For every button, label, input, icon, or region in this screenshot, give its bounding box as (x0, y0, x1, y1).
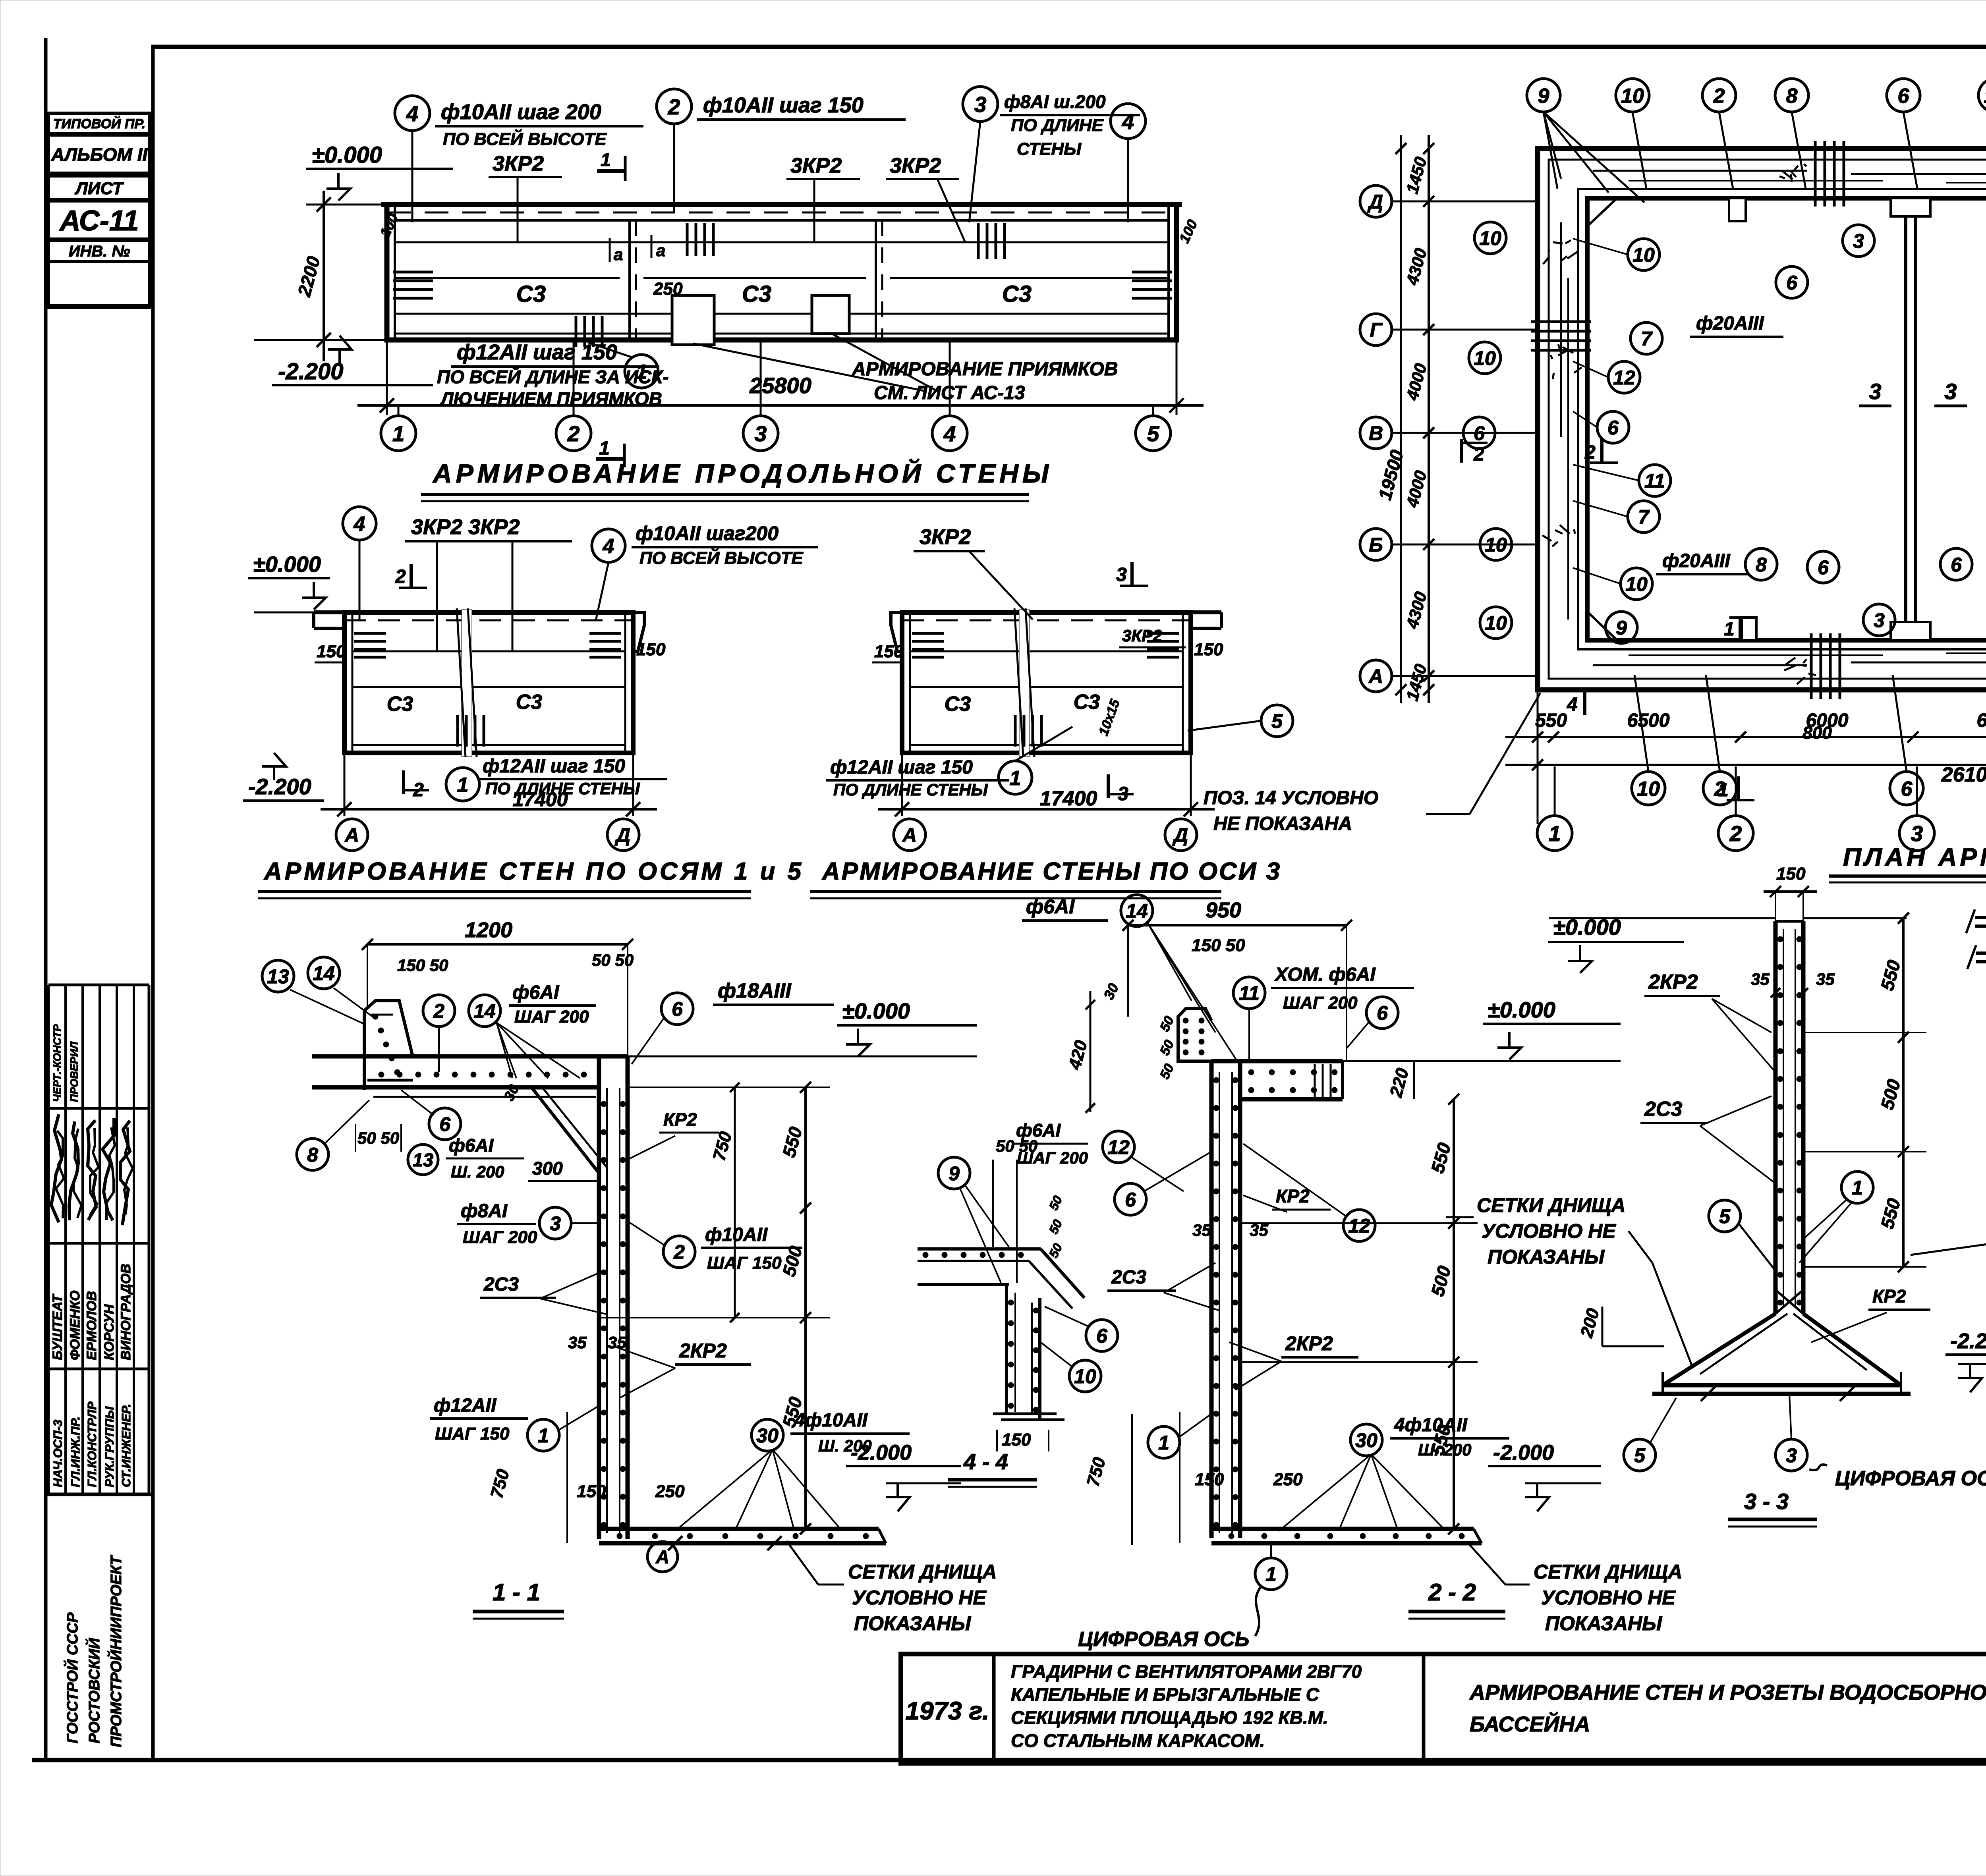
svg-text:2С3: 2С3 (1644, 1098, 1682, 1121)
svg-text:14: 14 (313, 962, 335, 984)
svg-text:РУК.ГРУППЫ: РУК.ГРУППЫ (102, 1406, 116, 1487)
svg-text:ПОЗ. 14 УСЛОВНО: ПОЗ. 14 УСЛОВНО (1204, 787, 1378, 809)
svg-text:АРМИРОВАНИЕ СТЕН И РОЗЕТЫ ВОД: АРМИРОВАНИЕ СТЕН И РОЗЕТЫ ВОДОСБОРНОГО (1469, 1681, 1986, 1704)
svg-text:13: 13 (413, 1149, 433, 1170)
svg-text:3: 3 (550, 1212, 561, 1235)
svg-text:50 50: 50 50 (357, 1129, 399, 1147)
svg-text:5: 5 (1271, 710, 1283, 732)
svg-text:1: 1 (538, 1424, 549, 1447)
svg-text:РОСТОВСКИЙ: РОСТОВСКИЙ (85, 1638, 103, 1743)
svg-text:АЛЬБОМ II: АЛЬБОМ II (51, 144, 148, 165)
svg-text:СМ. ЛИСТ АС-13: СМ. ЛИСТ АС-13 (874, 382, 1025, 403)
svg-text:ПРОМСТРОЙНИИПРОЕКТ: ПРОМСТРОЙНИИПРОЕКТ (107, 1555, 125, 1747)
svg-text:ПО ВСЕЙ ДЛИНЕ ЗА ИСК-: ПО ВСЕЙ ДЛИНЕ ЗА ИСК- (437, 367, 669, 387)
svg-text:3: 3 (974, 92, 987, 117)
svg-text:4: 4 (406, 101, 419, 126)
svg-text:14: 14 (473, 1000, 496, 1022)
svg-text:35: 35 (1192, 1221, 1211, 1239)
svg-text:9: 9 (1538, 85, 1549, 108)
svg-text:3: 3 (1786, 1444, 1797, 1467)
svg-text:1: 1 (1724, 619, 1735, 640)
svg-text:ф12АII шаг 150: ф12АII шаг 150 (483, 756, 625, 777)
svg-text:6500: 6500 (1627, 710, 1670, 731)
svg-text:5: 5 (1634, 1444, 1646, 1467)
svg-text:10: 10 (1474, 347, 1496, 369)
svg-text:150: 150 (1194, 640, 1223, 659)
svg-text:7: 7 (1641, 328, 1653, 350)
svg-text:800: 800 (1802, 723, 1832, 743)
svg-text:АРМИРОВАНИЕ ПРИЯМКОВ: АРМИРОВАНИЕ ПРИЯМКОВ (852, 359, 1118, 380)
svg-text:3КР2: 3КР2 (493, 152, 544, 176)
svg-text:-2.000: -2.000 (851, 1441, 912, 1465)
svg-text:2КР2: 2КР2 (1285, 1332, 1333, 1355)
svg-text:а: а (614, 245, 623, 264)
svg-text:±0.000: ±0.000 (1488, 997, 1555, 1022)
svg-text:4: 4 (1567, 694, 1578, 715)
svg-text:12: 12 (1613, 367, 1635, 389)
svg-text:10: 10 (1625, 573, 1648, 595)
svg-text:КР2: КР2 (1872, 1286, 1906, 1307)
svg-text:СЕКЦИЯМИ ПЛОЩАДЬЮ 192 КВ.М.: СЕКЦИЯМИ ПЛОЩАДЬЮ 192 КВ.М. (1011, 1707, 1328, 1728)
svg-text:1200: 1200 (465, 918, 512, 942)
svg-text:13: 13 (1984, 85, 1986, 108)
svg-text:14: 14 (1126, 900, 1148, 922)
svg-text:ЦИФРОВАЯ ОСЬ: ЦИФРОВАЯ ОСЬ (1835, 1467, 1986, 1490)
svg-text:3: 3 (1853, 230, 1864, 252)
svg-text:ПО ДЛИНЕ СТЕНЫ: ПО ДЛИНЕ СТЕНЫ (833, 780, 988, 799)
svg-text:6: 6 (1377, 1002, 1388, 1024)
svg-text:С3: С3 (516, 281, 546, 307)
svg-text:2: 2 (413, 780, 424, 801)
svg-text:13: 13 (267, 965, 289, 988)
svg-text:11: 11 (1644, 470, 1665, 492)
svg-text:2: 2 (1729, 821, 1742, 846)
svg-text:ШАГ 200: ШАГ 200 (1283, 993, 1358, 1013)
svg-text:4: 4 (354, 513, 365, 536)
svg-text:Ш. 200: Ш. 200 (1418, 1440, 1472, 1459)
svg-text:НАЧ.ОСП-3: НАЧ.ОСП-3 (51, 1420, 65, 1487)
svg-text:10: 10 (1621, 85, 1644, 108)
svg-text:ф8АI ш.200: ф8АI ш.200 (1004, 91, 1106, 112)
svg-text:6: 6 (1786, 272, 1798, 294)
svg-text:А: А (902, 824, 917, 846)
svg-text:А: А (655, 1546, 669, 1567)
svg-text:КАПЕЛЬНЫЕ И БРЫЗГАЛЬНЫЕ С: КАПЕЛЬНЫЕ И БРЫЗГАЛЬНЫЕ С (1011, 1684, 1319, 1705)
svg-text:6: 6 (1474, 422, 1485, 444)
svg-text:А: А (1368, 665, 1383, 687)
svg-text:6: 6 (1818, 556, 1829, 579)
svg-text:4: 4 (1122, 109, 1134, 134)
svg-text:10: 10 (1485, 534, 1507, 556)
svg-text:-2.200: -2.200 (248, 774, 311, 799)
svg-text:-2.000: -2.000 (1493, 1441, 1554, 1465)
svg-text:150: 150 (317, 642, 346, 661)
svg-text:6000: 6000 (1977, 710, 1986, 731)
svg-text:АРМИРОВАНИЕ СТЕНЫ ПО ОСИ 3: АРМИРОВАНИЕ СТЕНЫ ПО ОСИ 3 (821, 858, 1281, 885)
svg-text:ИНВ. №: ИНВ. № (69, 243, 130, 260)
svg-text:550: 550 (1535, 710, 1567, 731)
svg-text:СЕТКИ ДНИЩА: СЕТКИ ДНИЩА (848, 1561, 997, 1583)
svg-text:2 - 2: 2 - 2 (1428, 1579, 1476, 1606)
svg-text:3: 3 (1911, 821, 1923, 846)
svg-text:8: 8 (1786, 85, 1798, 108)
svg-text:4: 4 (603, 535, 614, 558)
svg-text:ЦИФРОВАЯ ОСЬ: ЦИФРОВАЯ ОСЬ (1078, 1628, 1249, 1651)
svg-text:35: 35 (1751, 970, 1770, 988)
svg-text:±0.000: ±0.000 (312, 142, 382, 168)
svg-text:Д: Д (614, 824, 630, 846)
svg-text:4 - 4: 4 - 4 (963, 1449, 1008, 1474)
svg-text:ф12АII: ф12АII (434, 1395, 497, 1416)
svg-text:ГЛ.КОНСТРЛР: ГЛ.КОНСТРЛР (85, 1401, 99, 1487)
svg-text:ТИПОВОЙ ПР.: ТИПОВОЙ ПР. (53, 116, 146, 131)
svg-text:30: 30 (756, 1424, 779, 1447)
svg-text:1: 1 (1718, 780, 1729, 801)
svg-text:ШАГ 150: ШАГ 150 (707, 1253, 782, 1273)
svg-text:6: 6 (1951, 554, 1962, 576)
svg-text:150: 150 (1776, 864, 1806, 884)
svg-text:3: 3 (1944, 379, 1957, 404)
svg-text:ф12АII шаг 150: ф12АII шаг 150 (830, 757, 973, 778)
svg-text:ф20АIII: ф20АIII (1662, 550, 1731, 571)
svg-text:1: 1 (601, 149, 611, 170)
svg-text:СО СТАЛЬНЫМ КАРКАСОМ.: СО СТАЛЬНЫМ КАРКАСОМ. (1011, 1730, 1265, 1751)
svg-text:2: 2 (395, 566, 406, 587)
svg-text:8: 8 (307, 1144, 318, 1166)
svg-text:5: 5 (1719, 1205, 1731, 1228)
svg-text:6: 6 (1096, 1325, 1108, 1347)
svg-text:ПО ВСЕЙ ВЫСОТЕ: ПО ВСЕЙ ВЫСОТЕ (639, 548, 804, 568)
svg-text:1: 1 (457, 774, 469, 797)
svg-text:ПЛАН АРМИРОВАНИЯ РОЗЕТЫ: ПЛАН АРМИРОВАНИЯ РОЗЕТЫ (1843, 843, 1986, 871)
svg-text:АРМИРОВАНИЕ СТЕН ПО ОСЯМ 1 и 5: АРМИРОВАНИЕ СТЕН ПО ОСЯМ 1 и 5 (263, 858, 804, 885)
svg-text:2: 2 (1473, 444, 1484, 465)
svg-text:1: 1 (1549, 821, 1561, 846)
svg-text:ФОМЕНКО: ФОМЕНКО (68, 1291, 83, 1360)
svg-text:±0.000: ±0.000 (253, 552, 321, 577)
svg-text:10: 10 (1485, 612, 1507, 634)
svg-text:СТЕНЫ: СТЕНЫ (1017, 139, 1082, 159)
svg-text:ШАГ 200: ШАГ 200 (463, 1228, 537, 1247)
svg-text:ф10АII шаг 150: ф10АII шаг 150 (703, 93, 864, 117)
svg-text:17400: 17400 (1040, 787, 1097, 810)
svg-text:ШАГ 150: ШАГ 150 (435, 1424, 510, 1444)
svg-text:2С3: 2С3 (1111, 1267, 1146, 1288)
svg-text:5: 5 (1147, 421, 1160, 446)
svg-text:3КР2: 3КР2 (920, 525, 971, 549)
svg-text:3: 3 (1874, 609, 1885, 631)
svg-text:СЕТКИ ДНИЩА: СЕТКИ ДНИЩА (1534, 1561, 1682, 1583)
svg-text:2: 2 (668, 95, 680, 119)
svg-text:10: 10 (1632, 244, 1655, 266)
svg-text:150: 150 (874, 642, 904, 661)
svg-text:В: В (1369, 422, 1383, 444)
svg-text:ПОКАЗАНЫ: ПОКАЗАНЫ (1488, 1246, 1605, 1268)
svg-text:ЕРМОЛОВ: ЕРМОЛОВ (84, 1291, 99, 1360)
svg-text:1: 1 (1010, 767, 1021, 790)
svg-text:1973 г.: 1973 г. (905, 1697, 989, 1725)
svg-text:ф6АI: ф6АI (512, 982, 560, 1003)
svg-text:35: 35 (1250, 1221, 1268, 1239)
svg-text:ЛЮЧЕНИЕМ ПРИЯМКОВ: ЛЮЧЕНИЕМ ПРИЯМКОВ (440, 388, 662, 409)
svg-text:ГОССТРОЙ СССР: ГОССТРОЙ СССР (63, 1612, 81, 1743)
svg-text:ПО ВСЕЙ ВЫСОТЕ: ПО ВСЕЙ ВЫСОТЕ (443, 129, 607, 149)
svg-text:26100: 26100 (1941, 763, 1986, 786)
svg-text:ф6АI: ф6АI (1026, 896, 1075, 918)
svg-text:9: 9 (1616, 617, 1627, 639)
svg-text:А: А (344, 824, 359, 846)
svg-text:3: 3 (755, 421, 767, 446)
svg-text:1 - 1: 1 - 1 (493, 1579, 540, 1606)
svg-text:КОРСУН: КОРСУН (102, 1304, 117, 1360)
svg-text:-2.200: -2.200 (278, 359, 343, 384)
svg-text:6: 6 (439, 1113, 451, 1135)
svg-text:2: 2 (567, 421, 580, 446)
svg-text:4ф10АII: 4ф10АII (1394, 1415, 1468, 1436)
svg-text:300: 300 (532, 1158, 563, 1179)
svg-text:БАССЕЙНА: БАССЕЙНА (1470, 1712, 1590, 1736)
svg-text:ПОКАЗАНЫ: ПОКАЗАНЫ (854, 1612, 971, 1635)
svg-text:ф6АI: ф6АI (449, 1135, 494, 1156)
svg-text:3КР2: 3КР2 (1122, 626, 1162, 645)
svg-text:ПО ДЛИНЕ СТЕНЫ: ПО ДЛИНЕ СТЕНЫ (485, 779, 640, 798)
svg-text:3 - 3: 3 - 3 (1744, 1489, 1789, 1514)
svg-text:150 50: 150 50 (1192, 936, 1245, 955)
svg-text:ГЛ.ИНЖ.ПР.: ГЛ.ИНЖ.ПР. (68, 1417, 82, 1487)
svg-text:1: 1 (636, 361, 647, 384)
svg-text:НЕ ПОКАЗАНА: НЕ ПОКАЗАНА (1213, 813, 1352, 834)
svg-text:1: 1 (1265, 1563, 1277, 1585)
svg-text:УСЛОВНО НЕ: УСЛОВНО НЕ (1482, 1220, 1616, 1242)
svg-text:ШАГ 200: ШАГ 200 (514, 1007, 589, 1027)
svg-text:10: 10 (1479, 227, 1501, 249)
svg-text:С3: С3 (945, 693, 971, 716)
svg-text:6: 6 (1898, 85, 1910, 108)
svg-text:а: а (656, 241, 665, 260)
svg-text:ПО ДЛИНЕ: ПО ДЛИНЕ (1011, 116, 1104, 135)
svg-text:2КР2: 2КР2 (679, 1339, 727, 1362)
svg-text:С3: С3 (742, 281, 771, 307)
svg-text:9: 9 (949, 1162, 960, 1185)
svg-text:±0.000: ±0.000 (842, 998, 910, 1023)
svg-text:2КР2: 2КР2 (1648, 971, 1698, 994)
svg-text:1: 1 (1852, 1177, 1863, 1199)
svg-text:ф18АIII: ф18АIII (718, 979, 792, 1002)
svg-text:8: 8 (1756, 554, 1767, 576)
svg-text:СЕТКИ ДНИЩА: СЕТКИ ДНИЩА (1477, 1194, 1625, 1216)
svg-text:250: 250 (1273, 1470, 1303, 1489)
svg-text:ф10АII шаг 200: ф10АII шаг 200 (441, 100, 601, 124)
svg-text:1: 1 (392, 421, 405, 446)
svg-text:4ф10АII: 4ф10АII (794, 1410, 868, 1431)
svg-text:ПОКАЗАНЫ: ПОКАЗАНЫ (1545, 1612, 1662, 1635)
svg-text:50 50: 50 50 (996, 1137, 1037, 1155)
svg-text:Ш. 200: Ш. 200 (451, 1162, 504, 1181)
svg-text:1: 1 (1158, 1432, 1169, 1454)
svg-text:ХОМ. ф6АI: ХОМ. ф6АI (1274, 964, 1376, 985)
svg-text:150: 150 (636, 640, 666, 659)
svg-text:УСЛОВНО НЕ: УСЛОВНО НЕ (852, 1586, 987, 1609)
svg-text:6: 6 (672, 998, 683, 1020)
svg-text:Г: Г (1370, 319, 1383, 341)
svg-text:6: 6 (1125, 1189, 1136, 1211)
svg-text:2: 2 (1713, 85, 1725, 108)
svg-text:250: 250 (655, 1482, 685, 1501)
svg-text:150: 150 (577, 1482, 606, 1501)
svg-text:30: 30 (1355, 1429, 1377, 1451)
svg-text:СТ.ИНЖЕНЕР.: СТ.ИНЖЕНЕР. (119, 1404, 133, 1487)
svg-text:ф8АI: ф8АI (461, 1200, 508, 1222)
svg-text:950: 950 (1206, 898, 1241, 922)
svg-text:2: 2 (673, 1241, 685, 1263)
svg-text:50 50: 50 50 (592, 951, 634, 969)
svg-text:Д: Д (1367, 191, 1383, 213)
svg-text:ЛИСТ: ЛИСТ (75, 179, 124, 198)
svg-text:6: 6 (1607, 417, 1619, 439)
svg-text:3: 3 (1116, 564, 1127, 585)
svg-text:ф10АII: ф10АII (705, 1224, 768, 1245)
svg-text:3КР2: 3КР2 (790, 154, 842, 178)
svg-text:7: 7 (1638, 506, 1650, 528)
svg-text:2С3: 2С3 (483, 1274, 519, 1295)
svg-text:25800: 25800 (749, 373, 811, 398)
svg-text:4: 4 (943, 421, 956, 446)
svg-text:ГРАДИРНИ С ВЕНТИЛЯТОРАМИ 2ВГ70: ГРАДИРНИ С ВЕНТИЛЯТОРАМИ 2ВГ70 (1011, 1661, 1362, 1682)
svg-text:150: 150 (1195, 1470, 1224, 1489)
svg-text:УСЛОВНО НЕ: УСЛОВНО НЕ (1541, 1586, 1676, 1609)
svg-text:3: 3 (1869, 379, 1881, 404)
svg-text:ф20АIII: ф20АIII (1696, 313, 1764, 334)
svg-text:С3: С3 (387, 693, 413, 716)
svg-text:ПРОВЕРИЛ: ПРОВЕРИЛ (68, 1041, 80, 1102)
svg-text:АРМИРОВАНИЕ ПРОДОЛЬНОЙ СТЕ: АРМИРОВАНИЕ ПРОДОЛЬНОЙ СТЕНЫ (432, 458, 1053, 488)
svg-text:10: 10 (1637, 778, 1660, 801)
svg-text:С3: С3 (516, 691, 543, 714)
svg-text:БУШТЕАТ: БУШТЕАТ (50, 1293, 65, 1360)
svg-text:10: 10 (1074, 1365, 1096, 1388)
svg-text:1: 1 (599, 438, 610, 459)
svg-text:-2.200: -2.200 (1950, 1329, 1986, 1353)
svg-text:КР2: КР2 (663, 1109, 697, 1130)
svg-text:ф10АII шаг200: ф10АII шаг200 (636, 522, 779, 544)
svg-text:35: 35 (568, 1333, 587, 1352)
svg-text:ВИНОГРАДОВ: ВИНОГРАДОВ (118, 1264, 133, 1360)
svg-text:6: 6 (1901, 778, 1913, 801)
svg-text:12: 12 (1348, 1215, 1370, 1237)
svg-text:3КР2: 3КР2 (890, 154, 941, 178)
svg-text:11: 11 (1239, 982, 1260, 1004)
svg-text:ЧЕРТ.-КОНСТР: ЧЕРТ.-КОНСТР (51, 1024, 63, 1102)
svg-text:150: 150 (1002, 1430, 1031, 1449)
svg-text:2: 2 (1584, 442, 1596, 463)
svg-text:С3: С3 (1074, 691, 1100, 714)
svg-text:Б: Б (1369, 534, 1383, 556)
svg-text:2: 2 (433, 1000, 444, 1022)
svg-text:Д: Д (1172, 824, 1188, 846)
svg-text:3КР2 3КР2: 3КР2 3КР2 (411, 515, 520, 539)
svg-text:КР2: КР2 (1276, 1186, 1310, 1206)
svg-text:С3: С3 (1002, 281, 1032, 307)
svg-text:АС-11: АС-11 (59, 205, 139, 237)
svg-text:3: 3 (1118, 784, 1128, 805)
svg-text:12: 12 (1107, 1136, 1130, 1158)
svg-text:35: 35 (1816, 970, 1835, 988)
svg-text:150 50: 150 50 (397, 956, 448, 975)
